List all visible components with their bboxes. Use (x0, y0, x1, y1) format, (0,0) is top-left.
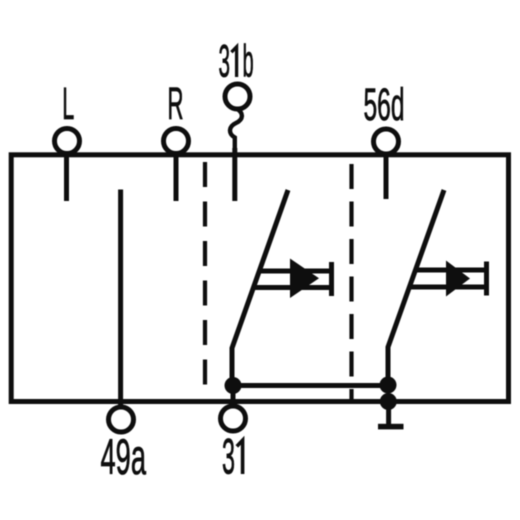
terminal L stub wire (64, 154, 69, 201)
ground stem wire (386, 402, 391, 425)
actuator 2 upper rod (414, 268, 487, 273)
switch arm 1 (movable contact) (232, 190, 288, 386)
terminal R circle (164, 129, 189, 154)
terminal 56d stub wire (384, 155, 389, 199)
terminal 31b circle (225, 84, 250, 109)
dashed separator line 2 (349, 164, 353, 401)
terminal 31b spring squiggle (230, 109, 242, 151)
ground bar (378, 424, 404, 430)
actuator 2 end bar (484, 262, 489, 296)
terminal R stub wire (174, 155, 179, 201)
enclosure box (11, 155, 508, 402)
terminal 49a circle (109, 407, 134, 432)
terminal 49a wire (118, 190, 123, 408)
actuator 1 upper rod (258, 269, 332, 274)
label 31 digit 1 (drawn, no foot) (237, 440, 243, 474)
svg-text:56d: 56d (364, 79, 405, 130)
svg-text:49a: 49a (101, 429, 147, 485)
dashed separator line 1 (203, 162, 207, 401)
actuator 2 lower rod (408, 285, 487, 290)
terminal 31 circle (221, 406, 246, 431)
actuator 1 lower rod (253, 285, 332, 290)
svg-text:3: 3 (219, 36, 231, 87)
label 31b digit 1 (drawn, no foot) (231, 47, 236, 77)
terminal 31b stub wire (232, 148, 237, 201)
junction dot arm2/bus (380, 377, 397, 394)
actuator 1 arrow head (290, 259, 319, 299)
wire 31 bus (233, 383, 388, 388)
terminal 56d circle (374, 129, 399, 154)
svg-text:b: b (243, 36, 254, 87)
terminal 31 wire (231, 386, 236, 407)
actuator 2 arrow head (446, 261, 470, 297)
svg-text:L: L (62, 78, 74, 129)
actuator 1 end bar (329, 262, 334, 296)
svg-text:3: 3 (222, 429, 235, 485)
junction dot ground on box edge (380, 393, 397, 410)
terminal L circle (55, 129, 80, 154)
switch arm 2 (movable contact) (388, 190, 444, 386)
svg-text:R: R (168, 78, 184, 129)
junction dot arm1/31 (225, 377, 242, 394)
